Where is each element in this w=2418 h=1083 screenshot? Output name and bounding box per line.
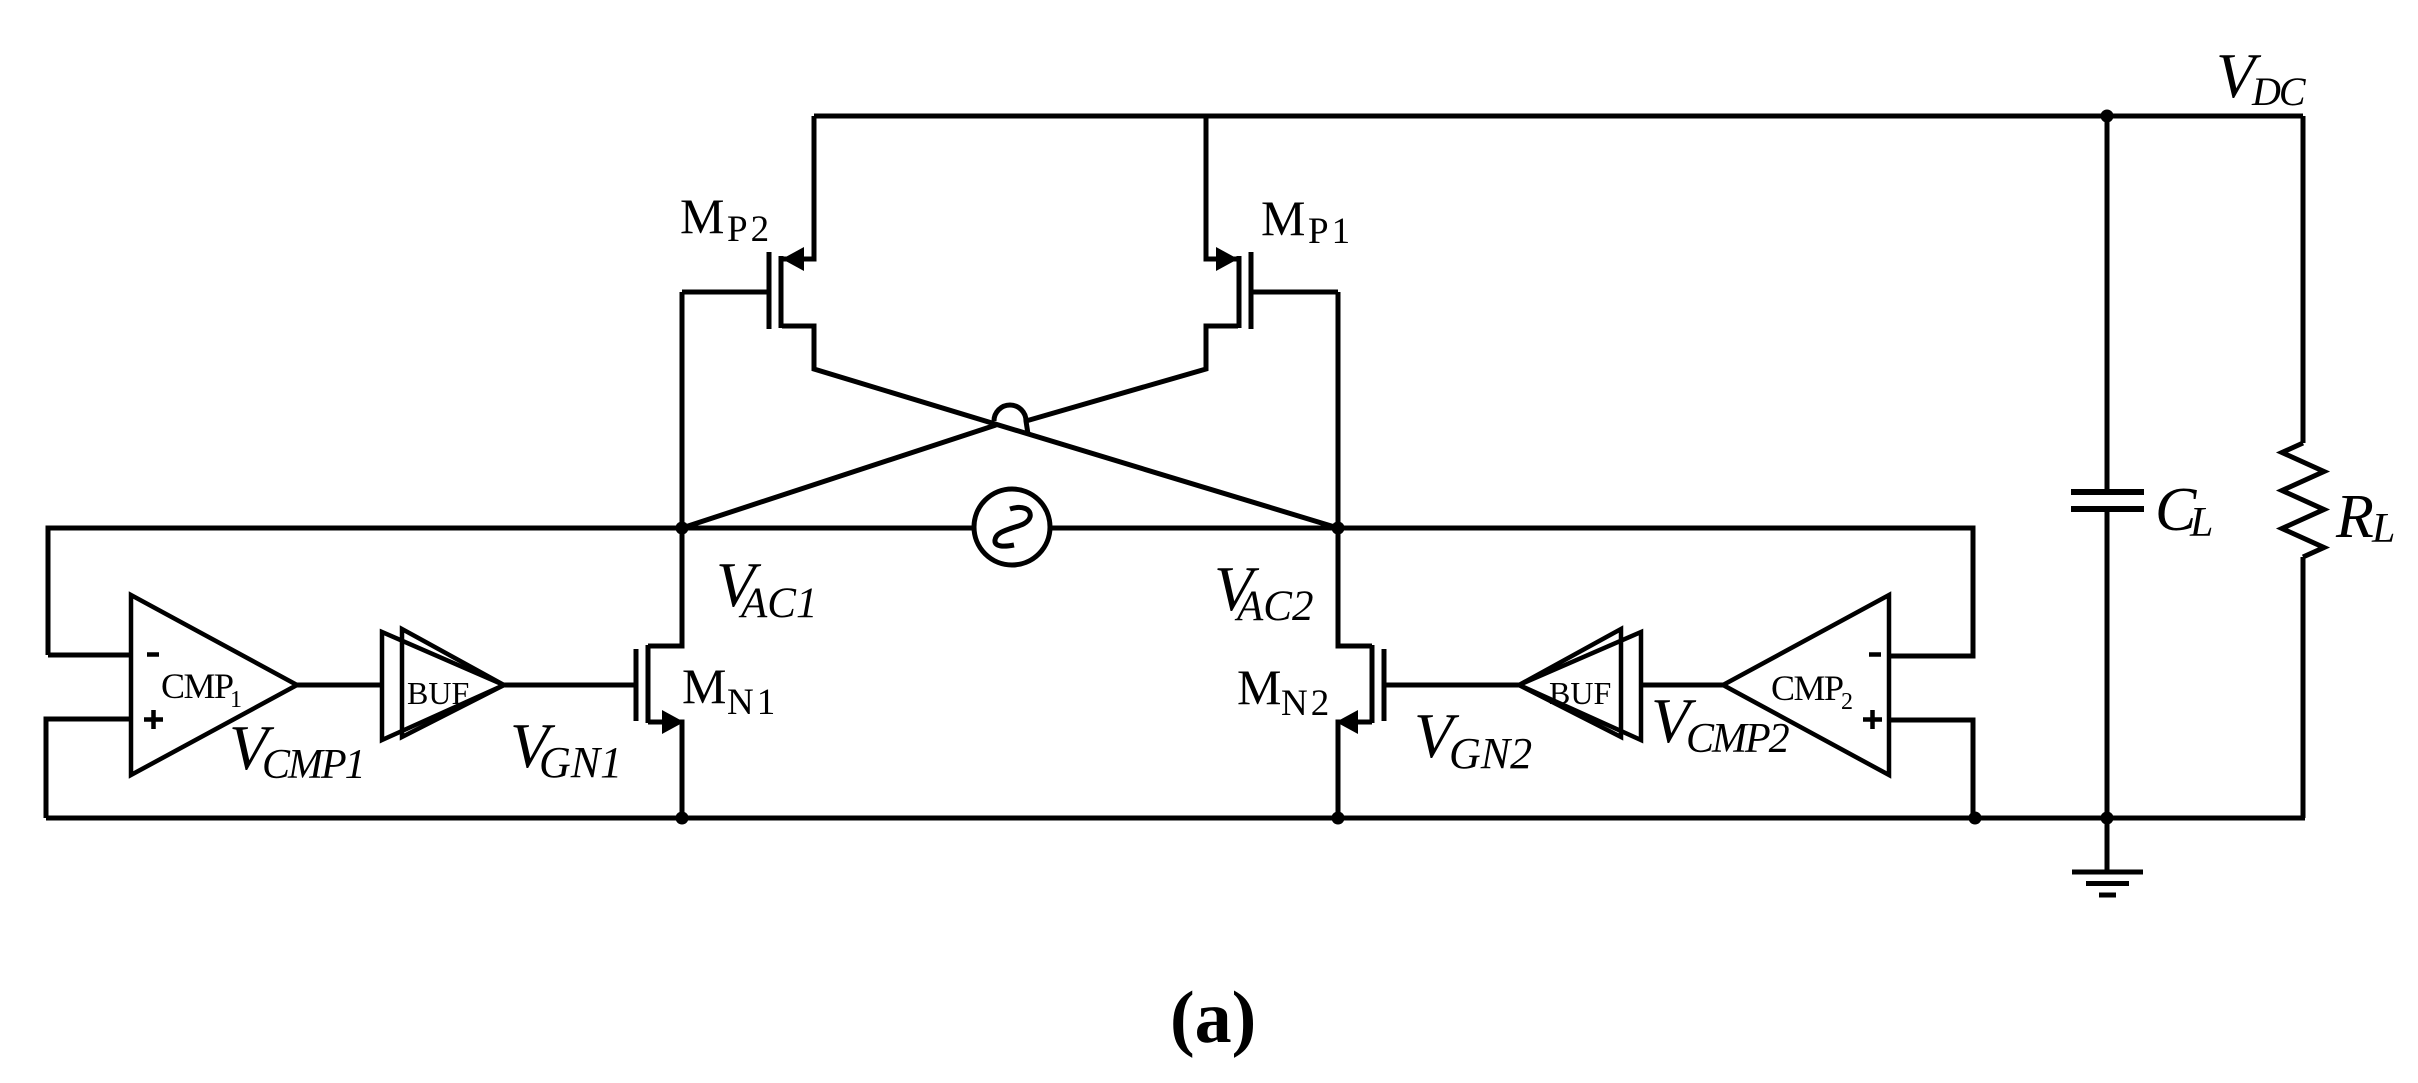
- svg-text:M: M: [1261, 190, 1305, 246]
- svg-text:CMP1: CMP1: [262, 742, 364, 788]
- svg-text:(a): (a): [1170, 977, 1256, 1059]
- svg-text:DC: DC: [2251, 69, 2307, 114]
- svg-text:CMP: CMP: [1771, 668, 1843, 708]
- svg-text:1: 1: [230, 687, 242, 713]
- svg-text:2: 2: [1841, 689, 1853, 715]
- svg-text:P2: P2: [727, 209, 772, 250]
- svg-text:CMP: CMP: [161, 666, 233, 706]
- svg-text:AC1: AC1: [738, 580, 817, 627]
- svg-text:N2: N2: [1281, 683, 1332, 724]
- svg-text:M: M: [1237, 659, 1281, 715]
- svg-text:GN1: GN1: [539, 738, 622, 787]
- svg-text:M: M: [682, 658, 726, 714]
- svg-text:AC2: AC2: [1234, 583, 1313, 630]
- svg-text:GN2: GN2: [1449, 729, 1532, 778]
- svg-text:P1: P1: [1308, 211, 1353, 252]
- svg-text:L: L: [2189, 500, 2213, 546]
- svg-text:N1: N1: [727, 682, 778, 723]
- svg-text:M: M: [680, 188, 724, 244]
- svg-text:BUF: BUF: [407, 675, 469, 711]
- svg-text:R: R: [2335, 483, 2374, 551]
- svg-text:BUF: BUF: [1549, 675, 1611, 711]
- svg-text:L: L: [2371, 506, 2395, 552]
- svg-text:CMP2: CMP2: [1686, 716, 1790, 762]
